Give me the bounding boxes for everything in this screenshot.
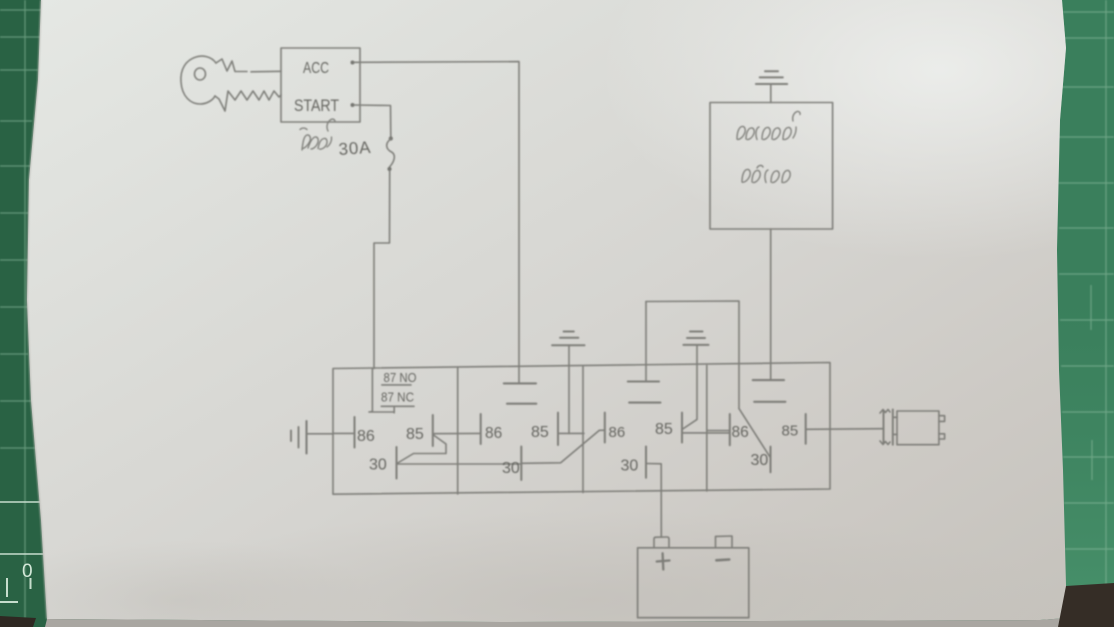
relay2 pin 30 [521, 430, 605, 480]
relay3 85 arm to ground [682, 345, 697, 430]
svg-text:86: 86 [357, 428, 375, 445]
wire START to fuse [355, 105, 391, 137]
key S1 shaft and teeth [215, 59, 281, 111]
svg-text:30A: 30A [338, 138, 372, 159]
relay1 87NC underline [381, 405, 414, 407]
relay1 87 wire and foot [369, 369, 394, 413]
relay2 coil plates [504, 383, 537, 403]
relay1 pin 86 [333, 417, 355, 448]
svg-text:30: 30 [751, 452, 769, 469]
relay1 pin 30 [397, 447, 522, 479]
svg-text:30: 30 [621, 458, 639, 475]
Thai label fan [742, 165, 790, 182]
svg-text:85: 85 [531, 424, 549, 441]
ground above relay2 [552, 332, 584, 346]
battery box [638, 548, 749, 618]
relay4 coil plates [753, 380, 786, 402]
relay3 pin 86 [604, 413, 606, 443]
relay4 pin 85 [806, 414, 884, 444]
relay1 pin 85 [433, 415, 481, 446]
battery + symbol [657, 553, 670, 569]
battery - terminal tab [716, 536, 733, 548]
compressor clutch connector [880, 410, 945, 445]
paper bottom edge shadow band [45, 618, 1067, 627]
svg-text:ACC: ACC [303, 60, 329, 77]
battery - symbol [716, 558, 729, 561]
terminal dot ACC [351, 61, 355, 65]
key S1 head [181, 56, 216, 104]
relay2 pin 86 [480, 414, 482, 444]
ground above relay3 [683, 332, 708, 345]
ruler markings bottom-left of mat [0, 502, 44, 602]
relay2 pin 85 [558, 413, 584, 445]
svg-text:87 NC: 87 NC [381, 391, 414, 405]
relay3 pin 30 [646, 447, 661, 538]
svg-text:87 NO: 87 NO [384, 371, 417, 385]
ignition switch box ACC/START [281, 48, 360, 122]
battery + terminal tab [654, 537, 669, 548]
wire ACC to relay2 coil [354, 62, 519, 383]
svg-text:85: 85 [782, 423, 799, 440]
Thai label motor [737, 111, 800, 139]
svg-text:86: 86 [485, 425, 502, 442]
relay divider 3-4 [706, 366, 708, 492]
svg-text:30: 30 [502, 460, 520, 477]
relay1 switch arm [397, 435, 446, 464]
relay1 87NO underline [382, 384, 411, 386]
svg-text:85: 85 [406, 426, 424, 443]
relay divider 1-2 [457, 368, 459, 494]
relay3 coil plates [628, 382, 661, 403]
svg-text:86: 86 [732, 424, 749, 441]
relay3 coil wire from loop [645, 302, 647, 382]
relay4 pin 30 [770, 447, 772, 473]
relay4 pin 86 [707, 414, 730, 445]
svg-text:START: START [294, 97, 339, 115]
Thai label fuse [300, 119, 335, 150]
svg-text:0: 0 [22, 561, 33, 582]
relay3 pin 85 [682, 413, 730, 443]
relay2 ground stem [568, 345, 570, 433]
svg-text:85: 85 [655, 421, 673, 438]
svg-text:86: 86 [609, 424, 626, 441]
relay divider 2-3 [582, 367, 584, 493]
relay4 coil wire from motor [770, 229, 772, 380]
dark table corners [0, 616, 36, 627]
relay outer box [333, 363, 830, 495]
chassis ground (left, sideways) [291, 421, 333, 454]
relay4 switch arm [739, 409, 770, 457]
ground above motor [756, 71, 787, 102]
fuse F1 30A squiggle [387, 136, 395, 171]
wire fuse down and jog to relay1 [374, 171, 390, 369]
terminal dot START [351, 103, 355, 107]
svg-text:30: 30 [369, 457, 387, 474]
loop wire over relays 3-4 [646, 301, 739, 409]
fan motor box [710, 103, 833, 230]
